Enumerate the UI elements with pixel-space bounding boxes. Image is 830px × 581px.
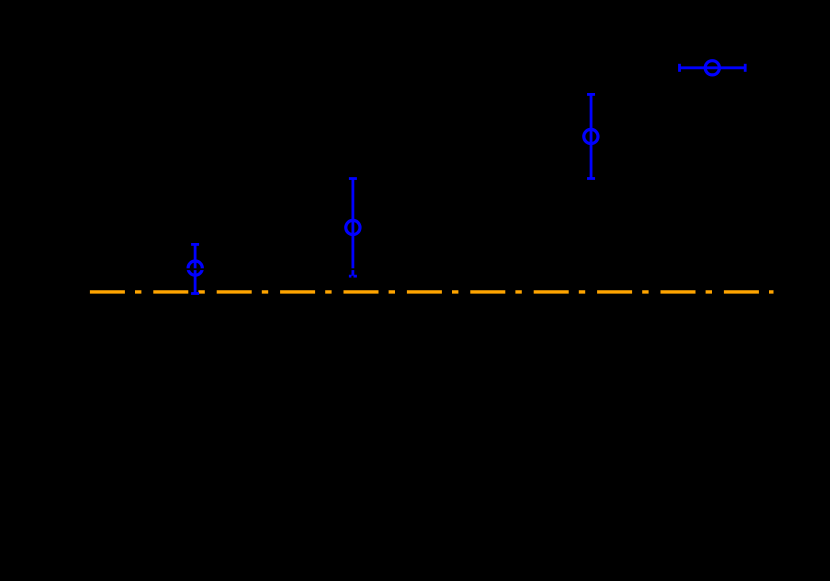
errorbar point 2 (vertical) <box>346 179 360 277</box>
black overlay notch in point 2 bottom cap <box>351 276 353 281</box>
errorbar point 4 (horizontal, top right) <box>680 61 746 75</box>
errorbar point 3 (vertical) <box>584 94 598 178</box>
black overlay line crossing point 1 marker and point 2 stem <box>180 268 360 270</box>
baseline: orange dash-dot horizontal line <box>90 290 774 293</box>
errorbar point 1 (vertical) <box>188 244 202 293</box>
